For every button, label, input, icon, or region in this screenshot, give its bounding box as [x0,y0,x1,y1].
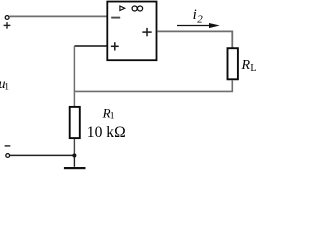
svg-text:1: 1 [110,112,115,122]
svg-text:R: R [241,58,251,73]
svg-text:10 kΩ: 10 kΩ [87,124,126,141]
svg-text:2: 2 [197,13,203,25]
svg-text:1: 1 [4,83,9,93]
svg-text:i: i [193,7,197,23]
svg-text:L: L [250,63,256,74]
